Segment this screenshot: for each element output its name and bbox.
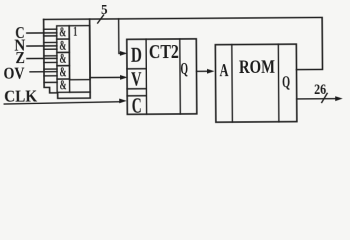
OR cell box <box>69 26 90 80</box>
wire input Z <box>27 57 57 59</box>
AND cell box 2 <box>57 39 70 52</box>
bus slash 5 <box>98 15 104 23</box>
svg-text:26: 26 <box>314 82 326 98</box>
svg-text:D: D <box>131 43 142 67</box>
AND cell box 1 <box>57 26 70 39</box>
wire CLK <box>4 102 121 104</box>
arrowhead into C <box>119 98 127 103</box>
arrowhead into V <box>120 75 128 80</box>
svg-text:1: 1 <box>73 25 77 40</box>
CT2 Q column divider <box>179 39 182 114</box>
wire CT2 Q to ROM A <box>197 70 209 72</box>
svg-text:Q: Q <box>282 72 290 91</box>
wire AND5 output <box>70 91 90 93</box>
svg-text:Q: Q <box>180 59 188 78</box>
wire input OV <box>30 71 57 73</box>
input pin stubs <box>44 29 57 82</box>
ROM Q column divider <box>277 44 280 121</box>
AND cell box 4 <box>57 66 70 79</box>
output slash 26 <box>322 93 328 102</box>
CT2 V box bottom <box>127 88 146 90</box>
arrowhead into D <box>120 51 128 56</box>
CT2 C box top <box>127 95 146 97</box>
svg-text:ROM: ROM <box>239 57 275 78</box>
arrowhead output 26 <box>335 96 343 101</box>
svg-text:CLK: CLK <box>4 86 38 105</box>
svg-text:V: V <box>131 68 142 90</box>
AND cell box 5 <box>57 79 70 92</box>
wire OR output to V <box>90 76 121 78</box>
wire bus drop to D <box>119 19 121 54</box>
wire input N <box>27 45 57 47</box>
AND cell box 3 <box>57 52 70 65</box>
wire top feedback bus <box>44 17 323 71</box>
arrowhead into A <box>207 69 215 74</box>
CT2 input column divider <box>145 39 148 114</box>
ROM outline <box>215 44 297 122</box>
wire input C <box>27 32 57 34</box>
svg-text:A: A <box>219 60 228 80</box>
svg-text:&: & <box>60 77 67 92</box>
svg-text:CT2: CT2 <box>149 41 179 63</box>
svg-text:5: 5 <box>101 3 108 18</box>
ROM A column divider <box>231 45 234 122</box>
CT2 D/V divider <box>127 68 146 70</box>
counter CT2 outline <box>127 39 197 114</box>
svg-text:C: C <box>132 93 142 118</box>
svg-text:OV: OV <box>3 64 25 83</box>
AND-array block outline <box>44 19 91 98</box>
wire ROM output <box>297 98 336 100</box>
